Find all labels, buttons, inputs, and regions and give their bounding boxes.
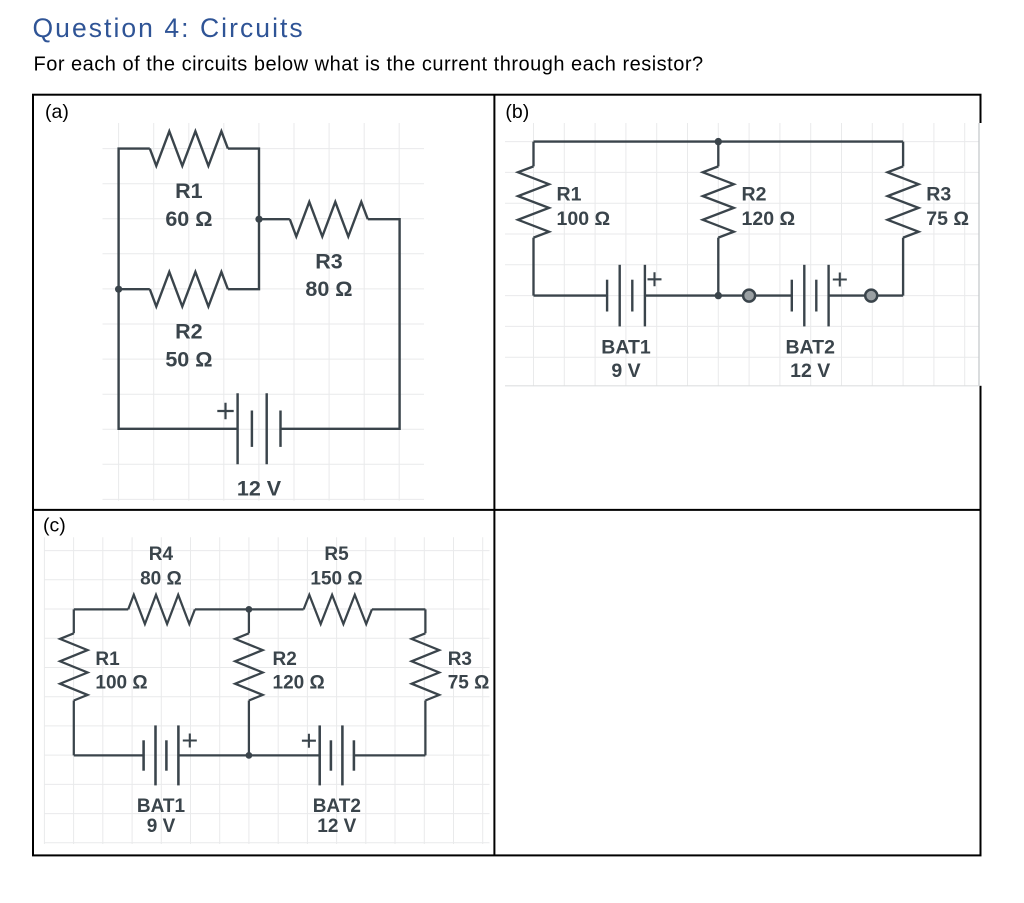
svg-text:100 Ω: 100 Ω (95, 673, 147, 694)
svg-text:80 Ω: 80 Ω (140, 568, 182, 589)
svg-text:(b): (b) (505, 101, 529, 123)
resistor R1 100 Ω zigzag (b) (518, 166, 549, 237)
svg-text:R1: R1 (95, 649, 120, 670)
resistor R4 80 Ω zigzag (c) (128, 595, 195, 624)
wire: (c) bottom left segment (74, 754, 144, 756)
battery 12 V plates (a) (236, 393, 238, 464)
svg-text:12 V: 12 V (317, 816, 356, 837)
battery BAT2 12 V plates (c) (318, 725, 321, 785)
terminal dot right (b) (865, 290, 877, 302)
wire: (a) R2 left stub (119, 288, 150, 290)
resistor R3 80 Ω zigzag (a) (290, 202, 368, 237)
svg-text:120 Ω: 120 Ω (742, 208, 796, 230)
svg-text:12 V: 12 V (790, 360, 830, 382)
wire: (b) top bus (534, 140, 904, 142)
svg-text:75 Ω: 75 Ω (926, 208, 969, 230)
svg-text:R1: R1 (175, 179, 203, 203)
resistor R1 60 Ω zigzag (a) (150, 131, 228, 166)
resistor R5 150 Ω zigzag (c) (304, 595, 372, 624)
terminal dot left (b) (743, 290, 755, 302)
wire: (b) R2 branch leads (717, 142, 719, 296)
svg-text:75 Ω: 75 Ω (448, 673, 490, 694)
svg-text:80 Ω: 80 Ω (305, 277, 352, 301)
battery BAT1 + polarity mark (c) (183, 734, 197, 748)
battery + polarity mark (a) (217, 403, 233, 419)
svg-text:R2: R2 (273, 649, 297, 670)
svg-text:BAT1: BAT1 (137, 796, 186, 817)
resistor R2 50 Ω zigzag (a) (150, 272, 228, 307)
wire: (a) top wire right segment into middle rail (228, 149, 259, 290)
wire: (a) R3 left stub from node (259, 218, 290, 220)
svg-text:R5: R5 (324, 544, 349, 565)
wire: (c) R3 branch leads (424, 609, 426, 755)
svg-text:R3: R3 (315, 249, 343, 273)
battery BAT2 12 V plates (b) (791, 280, 793, 312)
svg-text:BAT1: BAT1 (601, 337, 651, 359)
wire: (b) R3 branch leads (902, 142, 904, 296)
battery BAT1 + polarity mark (b) (648, 272, 662, 286)
wire: (b) bottom middle segment (645, 294, 792, 296)
svg-text:9 V: 9 V (611, 360, 640, 382)
wire: (c) R1 branch leads (73, 609, 75, 755)
resistor R2 120 Ω zigzag (b) (703, 166, 734, 237)
resistor R2 120 Ω zigzag (c) (235, 633, 263, 700)
svg-text:For each of the circuits below: For each of the circuits below what is t… (34, 54, 704, 76)
node junction middle rail (a) (255, 216, 262, 223)
battery BAT1 9 V plates (b) (606, 280, 608, 312)
svg-text:BAT2: BAT2 (313, 796, 361, 817)
svg-text:Question 4: Circuits: Question 4: Circuits (33, 13, 305, 43)
svg-text:R4: R4 (149, 544, 174, 565)
node junction bottom of R2 branch (b) (715, 292, 722, 299)
svg-text:R2: R2 (175, 320, 203, 344)
battery BAT1 9 V plates (c) (142, 740, 145, 770)
wire: (c) R2 branch leads (248, 609, 250, 755)
svg-text:150 Ω: 150 Ω (310, 568, 362, 589)
battery BAT2 + polarity mark (b) (833, 273, 847, 287)
node junction top of R2 branch (b) (715, 138, 722, 145)
wire: (c) bottom middle segment (178, 754, 319, 756)
svg-text:9 V: 9 V (147, 816, 176, 837)
battery BAT2 + polarity mark (c) (302, 734, 316, 748)
wire: (c) top bus segments (74, 608, 426, 610)
node junction top middle (c) (246, 606, 253, 613)
svg-text:R1: R1 (557, 183, 582, 205)
resistor R3 75 Ω zigzag (b) (888, 166, 919, 237)
node junction left rail (a) (115, 286, 122, 293)
svg-text:BAT2: BAT2 (785, 337, 835, 359)
svg-text:R3: R3 (926, 183, 951, 205)
svg-text:60 Ω: 60 Ω (165, 207, 212, 231)
wire: (b) bottom left segment (534, 294, 608, 296)
svg-text:R3: R3 (448, 649, 472, 670)
svg-text:R2: R2 (742, 183, 767, 205)
wire: (b) R1 branch leads (532, 142, 534, 296)
wire: (c) bottom right segment (354, 754, 426, 756)
wire: (a) right rail down to bottom (281, 219, 400, 429)
svg-text:50 Ω: 50 Ω (165, 347, 212, 371)
svg-text:(c): (c) (43, 514, 66, 536)
resistor R3 75 Ω zigzag (c) (412, 633, 440, 700)
wire: (b) bottom right segment (829, 294, 904, 296)
node junction bottom middle (c) (246, 752, 253, 759)
svg-text:120 Ω: 120 Ω (273, 673, 325, 694)
svg-text:12 V: 12 V (237, 477, 282, 501)
wire: (a) top-left loop (left rail + bottom-left segment) (119, 149, 238, 429)
svg-text:(a): (a) (45, 101, 69, 123)
svg-text:100 Ω: 100 Ω (557, 208, 611, 230)
resistor R1 100 Ω zigzag (c) (60, 633, 88, 700)
